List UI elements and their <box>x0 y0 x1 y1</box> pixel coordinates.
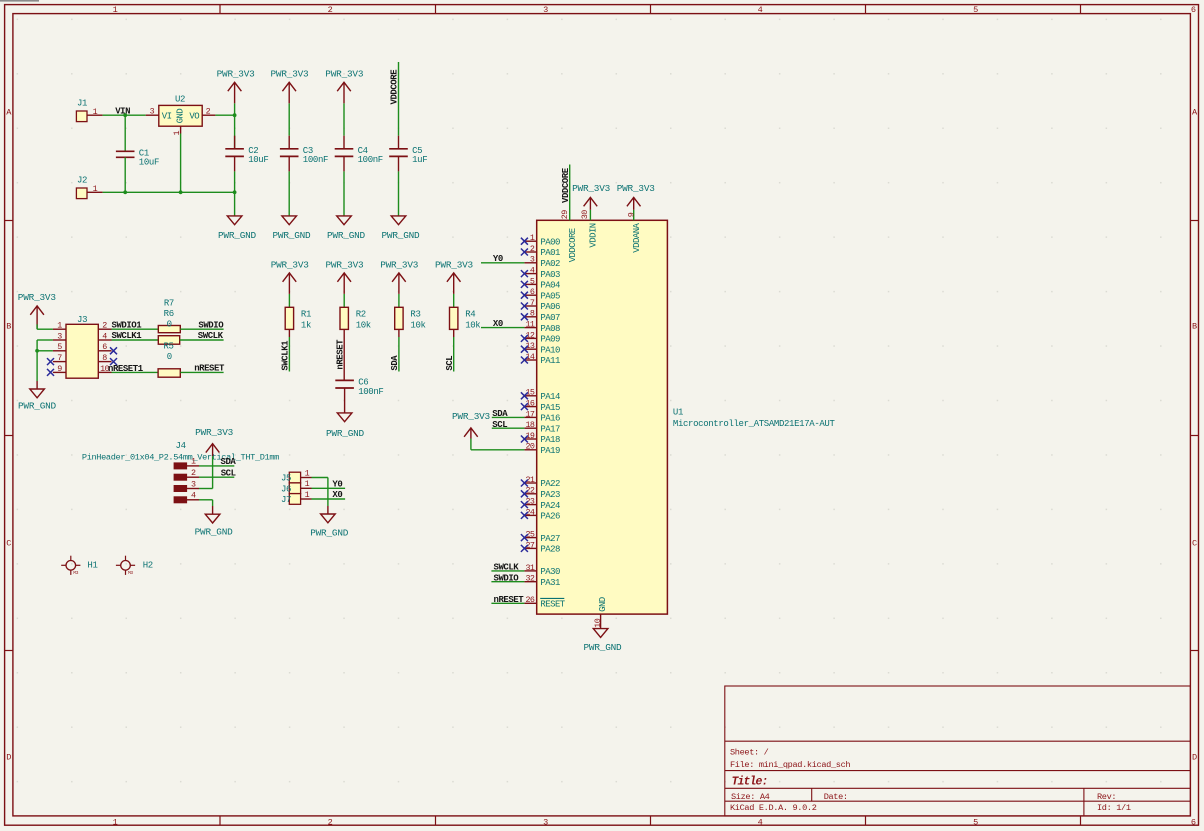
label SWDIO1 <box>112 320 143 330</box>
svg-text:M3: M3 <box>128 570 133 576</box>
svg-text:SWDIO: SWDIO <box>198 320 224 330</box>
wire J5 pin to GND <box>312 478 328 515</box>
power symbol PWR_3V3 above R2 <box>326 259 365 307</box>
wire VIN net J1 to U2 <box>103 114 146 116</box>
wire SWDIO to U1 pin 32 <box>491 581 524 583</box>
no-connect U1 pin 19 <box>521 436 528 443</box>
no-connect J3 pin 6 <box>110 347 117 354</box>
svg-text:VDDCORE: VDDCORE <box>390 69 400 105</box>
junction C1 / rail <box>123 190 127 194</box>
svg-text:VO: VO <box>189 111 199 121</box>
U1 pin 25 PA27 <box>524 530 560 544</box>
svg-text:5: 5 <box>57 342 62 352</box>
U1 pin 24 PA26 <box>524 507 560 521</box>
svg-text:1uF: 1uF <box>412 155 427 165</box>
svg-text:17: 17 <box>525 409 534 419</box>
U1 pin 14 PA11 <box>524 352 560 366</box>
capacitor C3 bottom lead <box>288 156 290 216</box>
label X0 at J7 <box>332 490 342 500</box>
U1 value <box>673 419 836 429</box>
power symbol PWR_3V3 above R3 <box>380 259 419 307</box>
label SWDIO at U1 <box>494 574 520 584</box>
U1 pin 9 <box>626 212 642 253</box>
power symbol PWR_3V3 <box>217 69 256 116</box>
resistor R3 <box>395 307 426 330</box>
connector J4 value <box>82 452 279 462</box>
svg-text:R1: R1 <box>301 310 311 320</box>
label SDA vertical <box>390 355 400 371</box>
svg-text:4: 4 <box>530 266 535 276</box>
power symbol PWR_3V3 at J4 <box>195 427 234 456</box>
svg-text:8: 8 <box>530 309 535 319</box>
svg-text:6: 6 <box>1191 818 1196 828</box>
svg-text:J6: J6 <box>281 484 291 494</box>
svg-text:PWR_GND: PWR_GND <box>18 400 57 411</box>
svg-text:1: 1 <box>57 321 62 331</box>
U1 pin 11 PA08 <box>524 320 560 334</box>
title block Size <box>731 792 770 802</box>
no-connect U1 pin 14 <box>521 357 528 364</box>
connector J1 <box>76 98 102 121</box>
connectors J5 J6 J7 <box>281 468 312 505</box>
U1 pin 32 PA31 <box>524 574 560 588</box>
U1 pin 8 PA07 <box>524 309 560 323</box>
svg-text:0: 0 <box>167 352 172 362</box>
U1 pin 26 RESET <box>524 595 565 609</box>
svg-text:10uF: 10uF <box>139 158 159 168</box>
title block Sheet <box>730 748 769 758</box>
wire SWCLK1 J3 pin4 to R6 <box>112 339 159 341</box>
svg-text:Y0: Y0 <box>332 480 342 490</box>
svg-text:J2: J2 <box>77 175 87 185</box>
U1 pin 21 PA22 <box>524 475 560 489</box>
svg-text:4: 4 <box>758 818 763 828</box>
wire below R4 <box>453 329 455 371</box>
svg-text:SDA: SDA <box>492 409 508 419</box>
wire Y0 to U1 pin 3 <box>481 262 524 264</box>
svg-text:10uF: 10uF <box>248 155 268 165</box>
U1 pin 29 <box>560 210 578 263</box>
svg-text:2: 2 <box>206 107 211 117</box>
svg-text:SCL: SCL <box>221 468 236 478</box>
svg-text:8: 8 <box>102 353 107 363</box>
power symbol PWR_3V3 at VDDIN <box>572 183 611 220</box>
svg-text:1: 1 <box>305 479 310 489</box>
svg-text:Sheet: /: Sheet: / <box>730 748 769 758</box>
svg-text:3: 3 <box>57 331 62 341</box>
svg-text:KiCad E.D.A. 9.0.2: KiCad E.D.A. 9.0.2 <box>730 803 817 813</box>
capacitor C2 bottom lead <box>234 156 236 216</box>
wire SWDIO R7 to right <box>180 328 223 330</box>
svg-text:File: mini_qpad.kicad_sch: File: mini_qpad.kicad_sch <box>730 760 850 770</box>
svg-text:1: 1 <box>305 468 310 478</box>
svg-text:PA05: PA05 <box>540 291 560 301</box>
svg-text:M3: M3 <box>73 570 78 576</box>
U1 reference <box>673 408 683 418</box>
no-connect U1 pin 21 <box>521 480 528 487</box>
wire SDA from J4 pin1 <box>199 465 234 467</box>
label SWCLK <box>198 331 224 341</box>
label SDA at J4 <box>221 457 237 467</box>
wire SWDIO1 J3 pin2 to R7 <box>112 328 159 330</box>
svg-text:PWR_GND: PWR_GND <box>195 527 234 538</box>
svg-text:26: 26 <box>525 595 534 605</box>
no-connect U1 pin 4 <box>521 270 528 277</box>
no-connect J3 pin 7 <box>47 358 54 365</box>
svg-text:PA27: PA27 <box>540 534 560 544</box>
svg-text:nRESET: nRESET <box>336 339 346 370</box>
svg-text:PA07: PA07 <box>540 313 560 323</box>
no-connect U1 pin 15 <box>521 392 528 399</box>
svg-text:B: B <box>6 322 11 332</box>
svg-text:SWDIO: SWDIO <box>494 574 520 584</box>
svg-text:1: 1 <box>93 107 98 117</box>
capacitor C4 bottom lead <box>343 156 345 216</box>
label SWDIO <box>198 320 224 330</box>
wire below R1 <box>288 329 290 371</box>
svg-text:J7: J7 <box>281 495 291 505</box>
no-connect U1 pin 7 <box>521 303 528 310</box>
svg-text:GND: GND <box>175 109 185 124</box>
power symbol PWR_3V3 at PA19 <box>452 411 491 439</box>
svg-text:PA18: PA18 <box>540 435 560 445</box>
svg-text:nRESET: nRESET <box>194 364 225 374</box>
svg-text:B: B <box>1192 322 1197 332</box>
wire nRESET1 J3 pin10 to R5 <box>112 371 159 373</box>
label SWCLK1 <box>112 331 143 341</box>
svg-text:R7: R7 <box>164 299 174 309</box>
capacitor C3 top lead <box>288 136 290 149</box>
label SWCLK1 vertical <box>281 340 291 371</box>
svg-text:PA06: PA06 <box>540 302 560 312</box>
svg-text:2: 2 <box>191 468 196 478</box>
label nRESET <box>194 364 225 374</box>
svg-text:H1: H1 <box>87 561 97 571</box>
svg-text:PA30: PA30 <box>540 567 560 577</box>
svg-text:PWR_3V3: PWR_3V3 <box>217 69 256 80</box>
title block Date <box>824 792 848 802</box>
svg-text:PA02: PA02 <box>540 259 560 269</box>
label VDDCORE <box>390 69 400 105</box>
svg-text:5: 5 <box>973 818 978 828</box>
svg-text:PA17: PA17 <box>540 424 560 434</box>
svg-text:10k: 10k <box>410 320 425 330</box>
label nRESET vertical <box>336 339 346 370</box>
label SCL vertical <box>445 356 455 371</box>
svg-text:VIN: VIN <box>115 106 130 116</box>
no-connect U1 pin 24 <box>521 512 528 519</box>
svg-text:PinHeader_01x04_P2.54mm_Vertic: PinHeader_01x04_P2.54mm_Vertical_THT_D1m… <box>82 452 279 462</box>
connector J4 reference <box>176 441 186 451</box>
svg-text:PA10: PA10 <box>540 345 560 355</box>
svg-text:3: 3 <box>150 107 155 117</box>
svg-text:PWR_3V3: PWR_3V3 <box>380 259 419 270</box>
U1 pin 17 PA16 <box>524 409 560 423</box>
svg-text:1: 1 <box>191 457 196 467</box>
U1 pin 16 PA15 <box>524 399 560 413</box>
wire R2 to C6 <box>343 329 345 380</box>
capacitor C6 <box>335 378 383 397</box>
U1 pin 22 PA23 <box>524 486 560 500</box>
svg-text:PWR_GND: PWR_GND <box>327 230 366 241</box>
svg-text:10k: 10k <box>356 320 371 330</box>
label X0 at U1 <box>493 319 503 329</box>
junction C2 / rail <box>233 190 237 194</box>
capacitor C5 top lead <box>398 136 400 149</box>
label VDDCORE at U1 <box>561 167 571 203</box>
svg-text:31: 31 <box>525 563 534 573</box>
no-connect J3 pin 8 <box>110 358 117 365</box>
svg-text:Date:: Date: <box>824 792 848 802</box>
title block Id <box>1097 803 1131 813</box>
svg-text:1: 1 <box>113 5 118 15</box>
mounting hole H2 <box>116 556 153 576</box>
svg-text:PWR_3V3: PWR_3V3 <box>617 183 656 194</box>
microcontroller U1 body <box>537 220 668 614</box>
resistor R5 <box>158 341 180 377</box>
svg-text:PWR_GND: PWR_GND <box>382 230 421 241</box>
capacitor C2 <box>225 146 268 165</box>
capacitor C6 bottom lead <box>344 388 346 413</box>
svg-text:7: 7 <box>530 298 535 308</box>
U1 pin 15 PA14 <box>524 388 560 402</box>
svg-text:J3: J3 <box>77 315 87 325</box>
title block KiCad version <box>730 803 817 813</box>
svg-text:GND: GND <box>598 597 608 612</box>
svg-text:2: 2 <box>102 321 107 331</box>
label SWCLK at U1 <box>494 563 520 573</box>
svg-text:5: 5 <box>530 276 535 286</box>
U1 pin 6 PA05 <box>524 287 560 301</box>
wire VDDCORE net at U1 pin 29 <box>569 165 571 221</box>
svg-text:PWR_3V3: PWR_3V3 <box>572 183 611 194</box>
power symbol PWR_3V3 at J3 <box>18 292 57 329</box>
wire SDA to U1 pin 17 <box>492 416 525 418</box>
power symbol PWR_GND below C2 <box>218 216 257 241</box>
label SDA at U1 <box>492 409 508 419</box>
no-connect U1 pin 16 <box>521 403 528 410</box>
svg-text:C: C <box>6 539 11 549</box>
svg-text:100nF: 100nF <box>358 387 383 397</box>
wire Y0 from J6 <box>312 487 346 489</box>
svg-text:PWR_3V3: PWR_3V3 <box>271 259 310 270</box>
svg-text:PA24: PA24 <box>540 501 560 511</box>
svg-text:PWR_GND: PWR_GND <box>273 230 312 241</box>
svg-text:3: 3 <box>191 479 196 489</box>
capacitor C4 <box>335 146 383 165</box>
wire J4 pin4 to GND <box>199 500 213 514</box>
svg-text:PA28: PA28 <box>540 545 560 555</box>
svg-text:2: 2 <box>328 5 333 15</box>
svg-text:100nF: 100nF <box>303 155 328 165</box>
label nRESET1 <box>108 364 144 374</box>
wire SCL to U1 pin 18 <box>492 427 525 429</box>
wire ground rail J2 to C2 <box>103 191 235 193</box>
svg-text:PWR_GND: PWR_GND <box>326 428 365 439</box>
U1 pin 27 PA28 <box>524 540 560 554</box>
svg-text:32: 32 <box>525 574 534 584</box>
svg-text:3: 3 <box>543 818 548 828</box>
svg-text:PWR_3V3: PWR_3V3 <box>435 259 474 270</box>
resistor R7 <box>158 299 180 333</box>
power symbol PWR_GND at J4 <box>195 514 234 537</box>
svg-text:4: 4 <box>758 5 763 15</box>
no-connect U1 pin 8 <box>521 313 528 320</box>
wire J3 pin1 to 3V3 <box>37 324 53 329</box>
svg-text:Id: 1/1: Id: 1/1 <box>1097 803 1131 813</box>
power symbol PWR_GND at J5 <box>310 514 349 539</box>
svg-text:PWR_3V3: PWR_3V3 <box>18 292 57 303</box>
svg-text:0: 0 <box>167 320 172 330</box>
screenshot artifact strip <box>0 0 39 2</box>
power symbol PWR_3V3 above R1 <box>271 259 310 307</box>
svg-text:5: 5 <box>973 5 978 15</box>
svg-text:1k: 1k <box>301 320 311 330</box>
svg-text:10: 10 <box>593 618 603 627</box>
svg-text:PWR_3V3: PWR_3V3 <box>452 411 491 422</box>
power symbol PWR_GND below C6 <box>326 413 365 439</box>
capacitor C5 bottom lead <box>398 156 400 216</box>
svg-text:SCL: SCL <box>445 356 455 371</box>
svg-text:SCL: SCL <box>492 420 507 430</box>
svg-text:SWCLK1: SWCLK1 <box>281 340 291 371</box>
svg-text:PA31: PA31 <box>540 578 560 588</box>
svg-text:nRESET1: nRESET1 <box>108 364 144 374</box>
no-connect U1 pin 25 <box>521 534 528 541</box>
U1 pin 20 PA19 <box>524 442 560 456</box>
resistor R6 <box>158 309 179 344</box>
no-connect U1 pin 2 <box>521 249 528 256</box>
resistor R4 <box>450 307 481 330</box>
no-connect U1 pin 6 <box>521 292 528 299</box>
mounting hole H1 <box>61 556 97 576</box>
U1 pin 12 PA09 <box>524 330 560 344</box>
U1 pin 13 PA10 <box>524 341 560 355</box>
U1 pin 1 PA00 <box>524 233 560 247</box>
svg-text:1: 1 <box>530 233 535 243</box>
power symbol PWR_GND below C4 <box>327 216 366 241</box>
junction 3V3 / C2 column <box>233 113 237 117</box>
svg-text:PA22: PA22 <box>540 479 560 489</box>
svg-text:PA23: PA23 <box>540 490 560 500</box>
U1 pin 18 PA17 <box>524 420 560 434</box>
title block File <box>730 760 850 770</box>
svg-text:PWR_GND: PWR_GND <box>310 528 349 539</box>
wire SWCLK to U1 pin 31 <box>491 570 524 572</box>
svg-text:PWR_3V3: PWR_3V3 <box>325 69 364 80</box>
wire nRESET R5 to right <box>180 371 223 373</box>
U1 pin 10 GND <box>593 597 608 628</box>
svg-text:30: 30 <box>580 210 590 219</box>
U1 pin 19 PA18 <box>524 431 560 445</box>
svg-text:VI: VI <box>162 111 172 121</box>
svg-text:SDA: SDA <box>221 457 237 467</box>
connector J4 pins <box>174 457 199 503</box>
svg-text:PWR_3V3: PWR_3V3 <box>271 69 310 80</box>
wire X0 from J7 <box>312 498 346 500</box>
wire J4 pin3 to 3V3 <box>199 456 213 488</box>
svg-text:Microcontroller_ATSAMD21E17A-A: Microcontroller_ATSAMD21E17A-AUT <box>673 419 836 429</box>
U1 pin 7 PA06 <box>524 298 560 312</box>
junction VIN / C1 <box>123 113 127 117</box>
U1 pin 4 PA03 <box>524 266 560 280</box>
svg-text:PA03: PA03 <box>540 270 560 280</box>
power symbol PWR_3V3 above C3 <box>271 69 310 136</box>
resistor R1 <box>285 307 311 330</box>
connector J2 <box>76 175 102 198</box>
svg-text:R6: R6 <box>164 309 174 319</box>
svg-text:18: 18 <box>525 420 534 430</box>
no-connect U1 pin 13 <box>521 346 528 353</box>
no-connect U1 pin 27 <box>521 545 528 552</box>
svg-text:R4: R4 <box>465 310 475 320</box>
no-connect U1 pin 1 <box>521 238 528 245</box>
svg-text:PA14: PA14 <box>540 392 560 402</box>
wire J3 pins 3,5 to GND <box>37 340 53 381</box>
svg-text:J4: J4 <box>176 441 186 451</box>
svg-text:Size: A4: Size: A4 <box>731 792 770 802</box>
svg-text:PA11: PA11 <box>540 356 560 366</box>
U1 pin 3 PA02 <box>524 255 560 269</box>
svg-text:PA01: PA01 <box>540 248 560 258</box>
svg-text:10k: 10k <box>465 320 480 330</box>
svg-text:J5: J5 <box>281 474 291 484</box>
svg-text:SWCLK: SWCLK <box>198 331 224 341</box>
wire SWCLK R6 to right <box>180 339 224 341</box>
label Y0 at J6 <box>332 480 342 490</box>
wire SCL from J4 pin2 <box>199 476 234 478</box>
label Y0 at U1 <box>493 254 503 264</box>
svg-text:2: 2 <box>328 818 333 828</box>
svg-text:H2: H2 <box>143 561 153 571</box>
svg-text:29: 29 <box>560 210 570 219</box>
junction U2 GND / rail <box>179 190 183 194</box>
svg-text:PWR_3V3: PWR_3V3 <box>326 259 365 270</box>
svg-text:1: 1 <box>93 184 98 194</box>
connector J3 <box>53 315 112 378</box>
label SCL at J4 <box>221 468 236 478</box>
svg-text:VDDIN: VDDIN <box>589 223 599 247</box>
svg-text:PA09: PA09 <box>540 335 560 345</box>
power symbol PWR_GND at U1 <box>584 629 623 654</box>
svg-text:PA15: PA15 <box>540 403 560 413</box>
svg-text:U2: U2 <box>175 95 185 105</box>
capacitor C1 bottom lead <box>124 157 126 192</box>
svg-text:PA16: PA16 <box>540 414 560 424</box>
wire nRESET to U1 pin 26 <box>491 602 524 604</box>
svg-text:U1: U1 <box>673 408 683 418</box>
svg-text:PWR_GND: PWR_GND <box>584 642 623 653</box>
svg-text:J1: J1 <box>77 98 87 108</box>
svg-text:SWCLK: SWCLK <box>494 563 520 573</box>
svg-text:Rev:: Rev: <box>1097 792 1116 802</box>
svg-text:VDDCORE: VDDCORE <box>568 228 578 262</box>
svg-text:X0: X0 <box>332 490 342 500</box>
wire below R3 <box>398 329 400 371</box>
capacitor C4 top lead <box>343 136 345 149</box>
svg-text:X0: X0 <box>493 319 503 329</box>
svg-text:20: 20 <box>525 442 534 452</box>
power symbol PWR_3V3 above C4 <box>325 69 364 136</box>
svg-text:PA26: PA26 <box>540 512 560 522</box>
capacitor C2 top lead <box>234 115 236 149</box>
power symbol PWR_3V3 above R4 <box>435 259 474 307</box>
wire VDDCORE net above C5 <box>398 62 400 136</box>
svg-text:R5: R5 <box>163 341 173 351</box>
capacitor C5 <box>389 146 427 165</box>
wire U2 GND down <box>180 134 182 193</box>
svg-text:RESET: RESET <box>540 600 565 610</box>
